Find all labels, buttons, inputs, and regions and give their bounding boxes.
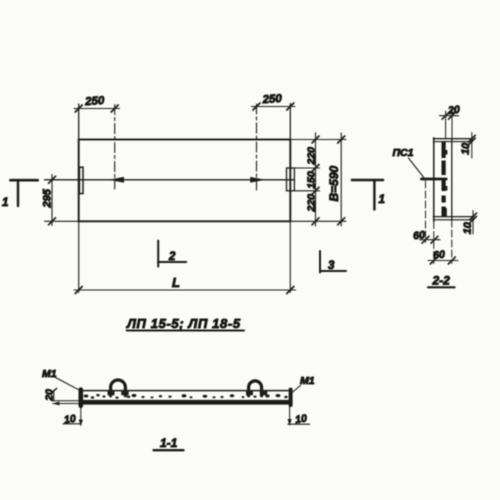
dimension 295 left [42,175,79,226]
section mark 3 [320,251,346,273]
dimension 10 (section 1-1 left) [63,405,83,427]
svg-text:150: 150 [306,171,318,189]
svg-text:295: 295 [42,188,54,208]
plan right edge extension [289,104,291,293]
section mark 2 [158,241,186,267]
dimension 20 (section 1-1 left) [44,388,80,405]
title LP 15-5; LP 18-5 [126,316,244,331]
section 2-2 top edge double line [433,139,472,142]
section mark 1 left [2,180,38,209]
loop axis dashed line right [256,104,258,191]
dimension 250 left [74,95,120,112]
svg-text:М1: М1 [300,375,315,387]
PS1 anchor bar [422,178,447,181]
label M1 left with leader [42,368,80,390]
section 1-1 slab bottom thick band [80,400,293,405]
svg-text:2-2: 2-2 [432,274,451,288]
section 2-2 bottom edge double line [433,217,474,220]
plan outline [79,140,291,222]
svg-text:10: 10 [460,143,473,155]
embedded plate right (plan) [287,168,295,191]
dimension 60 first (section 2-2 bottom) [413,181,440,243]
dimension 10 (section 1-1 right) [288,405,310,427]
svg-text:220: 220 [306,194,318,213]
concrete dots in slab section [84,394,288,399]
plan mid axis line [45,179,295,181]
loop axis dashed line left [114,105,116,190]
svg-text:250: 250 [261,93,283,106]
label M1 right with leader [292,375,315,393]
section 2-2 left face [433,138,435,222]
plan left edge extension (up to 250 dim, down to L dim) [78,104,80,293]
embedded plate left (plan) [79,167,83,193]
section 2-2 right face [451,139,453,220]
section 1-1 left end plate [79,390,84,406]
svg-text:М1: М1 [42,368,57,380]
dimension 10 (section 2-2 top right) [460,133,476,159]
dimension 20 (section 2-2 top) [440,104,461,139]
svg-text:20: 20 [44,389,56,402]
svg-text:220: 220 [306,147,318,166]
section 1-1 slab top line [80,390,292,392]
section mark 1 right [352,180,385,210]
svg-text:60: 60 [433,249,446,262]
section 1-1 right end plate [289,390,293,405]
svg-text:60: 60 [413,229,426,242]
dimension 250 right [252,93,296,110]
label 2-2 [428,274,455,288]
svg-text:ПС1: ПС1 [393,147,414,159]
svg-text:10: 10 [63,413,76,427]
dimension L bottom [74,275,296,294]
svg-text:1: 1 [2,197,8,209]
svg-text:L: L [172,275,180,290]
svg-text:2: 2 [168,251,176,263]
label PS1 with leader [393,147,426,180]
svg-text:ЛП 15-5; ЛП 18-5: ЛП 15-5; ЛП 18-5 [126,316,241,331]
dimension chain 220/150/220 right [290,133,346,226]
loop position arrow left [109,177,125,183]
dimension B=590 right [327,133,345,226]
svg-text:250: 250 [84,95,106,108]
loop position arrow right [250,177,266,183]
svg-text:1-1: 1-1 [160,436,178,450]
svg-text:1: 1 [379,194,385,206]
svg-text:10: 10 [462,222,475,234]
lifting loop left (section 1-1) [108,380,129,396]
svg-text:20: 20 [447,104,461,117]
svg-text:3: 3 [328,260,335,272]
lifting loop right (section 1-1) [246,381,267,396]
dimension 60 second (section 2-2 bottom) [428,220,458,264]
svg-text:10: 10 [294,413,307,427]
dimension 10 (section 2-2 bottom right) [462,211,477,235]
svg-text:B=590: B=590 [327,165,341,201]
label 1-1 [154,436,184,450]
embedded plate PS1 (edge view, thick dashed) [443,142,447,217]
